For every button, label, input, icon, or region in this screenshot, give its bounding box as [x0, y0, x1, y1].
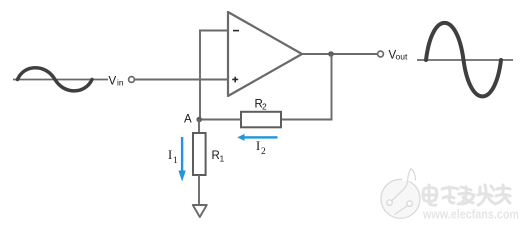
output sine wave [426, 23, 501, 97]
svg-text:I: I [168, 148, 172, 162]
op-amp minus sign [233, 30, 239, 32]
current arrow I1 [178, 137, 185, 182]
wire Vin to + input [135, 79, 229, 81]
node A dot [196, 117, 202, 123]
svg-text:V: V [109, 76, 117, 88]
wire R2 to node A [199, 119, 241, 121]
output sine axis [417, 59, 513, 61]
watermark chinese text (approximated strokes) [423, 185, 510, 205]
svg-text:2: 2 [261, 147, 266, 157]
input sine wave [18, 68, 93, 91]
op-amp plus sign [232, 77, 238, 83]
svg-text:in: in [117, 78, 124, 88]
feedback wire vertical [331, 54, 333, 120]
output wire [302, 53, 378, 55]
current arrow I2 [237, 134, 277, 141]
output junction dot [328, 51, 334, 57]
svg-text:out: out [396, 52, 408, 62]
svg-text:A: A [184, 114, 192, 126]
svg-text:1: 1 [220, 154, 225, 164]
svg-text:I: I [256, 139, 260, 153]
watermark logo disc [381, 169, 420, 219]
wire node A to R1 [198, 120, 200, 134]
svg-text:www.elecfans.com: www.elecfans.com [422, 208, 519, 222]
svg-text:1: 1 [173, 156, 178, 166]
input sine axis [13, 79, 108, 81]
resistor R2 [241, 112, 281, 128]
output terminal [378, 51, 384, 57]
svg-text:2: 2 [262, 102, 267, 112]
feedback wire horizontal to R2 [281, 119, 333, 121]
input terminal [129, 77, 135, 83]
wire R1 to ground [198, 175, 200, 205]
wire vertical from - input down to node A [199, 30, 201, 121]
ground [193, 205, 207, 217]
resistor R1 [193, 133, 206, 175]
wire inverting input stub [199, 30, 228, 32]
op-amp U1 [228, 12, 302, 96]
